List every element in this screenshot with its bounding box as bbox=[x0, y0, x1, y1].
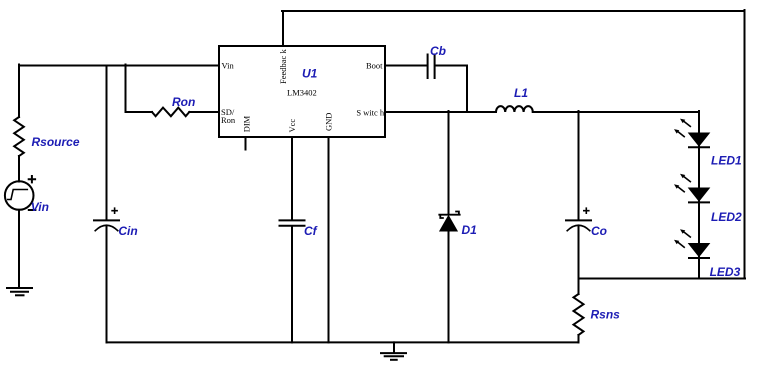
svg-text:Cf: Cf bbox=[304, 224, 318, 238]
wire Cin branch lower bbox=[106, 226, 108, 343]
resistor Rsns bbox=[574, 294, 584, 335]
voltage source Vin bbox=[5, 181, 34, 210]
capacitor Cf bbox=[280, 220, 305, 225]
wire Rsns upper lead bbox=[578, 279, 580, 295]
svg-text:DIM: DIM bbox=[241, 115, 251, 132]
svg-text:S witc h: S witc h bbox=[356, 108, 385, 118]
svg-text:LED3: LED3 bbox=[710, 265, 741, 279]
svg-text:Rsource: Rsource bbox=[32, 135, 80, 149]
wire feedback pin stub bbox=[282, 11, 284, 46]
wire Ron branch vertical bbox=[125, 65, 127, 113]
wire feedback top run bbox=[282, 10, 745, 12]
wire Ron to SD pin bbox=[189, 111, 219, 113]
wire source to Rsource bbox=[18, 65, 20, 118]
wire Co branch lower bbox=[578, 226, 580, 279]
ground (bottom) stem bbox=[393, 342, 395, 352]
svg-text:Boot: Boot bbox=[366, 60, 383, 70]
svg-text:Co: Co bbox=[591, 224, 607, 238]
pin DIM stub bbox=[245, 137, 247, 150]
op-amp U1 IC box bbox=[219, 46, 385, 137]
svg-text:Vcc: Vcc bbox=[287, 119, 297, 133]
wire bottom rail bbox=[107, 341, 579, 343]
wire Cf to bottom rail bbox=[291, 227, 293, 343]
svg-text:D1: D1 bbox=[462, 223, 478, 237]
wire L1 to LED node bbox=[533, 111, 699, 113]
svg-text:LED2: LED2 bbox=[711, 210, 742, 224]
svg-text:GND: GND bbox=[324, 113, 334, 131]
svg-text:Vin: Vin bbox=[222, 61, 235, 71]
wire Ron branch to resistor bbox=[126, 111, 153, 113]
wire GND pin down bbox=[328, 137, 330, 342]
wire Vcc pin down bbox=[291, 137, 293, 219]
wire Rsns lower lead bbox=[578, 335, 580, 342]
svg-text:Ron: Ron bbox=[172, 95, 195, 109]
svg-text:L1: L1 bbox=[514, 86, 528, 100]
svg-text:Ron: Ron bbox=[221, 115, 236, 125]
capacitor Cin bbox=[94, 219, 119, 221]
wire Co branch upper bbox=[578, 111, 580, 219]
svg-text:U1: U1 bbox=[302, 67, 318, 81]
resistor Rsource bbox=[14, 117, 24, 156]
wire Cin branch upper bbox=[106, 66, 108, 220]
ground (bottom) bbox=[381, 352, 406, 354]
svg-text:Feedbac k: Feedbac k bbox=[278, 49, 288, 84]
wire Cb to switch node bbox=[436, 66, 468, 113]
wire source to ground bbox=[18, 210, 20, 288]
wire input rail Vin net bbox=[19, 65, 219, 67]
diode D1 triangle bbox=[440, 216, 457, 231]
LED D-LED2 bbox=[674, 174, 709, 203]
ground (left) bbox=[7, 287, 32, 289]
wire D1 branch upper bbox=[448, 111, 450, 214]
capacitor Co bbox=[566, 219, 591, 221]
wire feedback bottom run bbox=[579, 278, 746, 280]
wire Rsource to source bbox=[18, 156, 20, 182]
svg-text:LM3402: LM3402 bbox=[287, 88, 317, 98]
resistor Ron bbox=[152, 108, 189, 117]
diode D1 schottky bar bbox=[439, 212, 459, 219]
wire Boot lead bbox=[385, 65, 427, 67]
wire Switch lead bbox=[385, 111, 496, 113]
LED D-LED1 bbox=[674, 119, 709, 148]
svg-text:Cb: Cb bbox=[430, 44, 446, 58]
capacitor Cb bbox=[428, 55, 435, 79]
wire feedback right vertical bbox=[744, 10, 746, 279]
LED D-LED3 bbox=[674, 229, 709, 258]
wire LED column bbox=[698, 111, 700, 279]
inductor L1 bbox=[496, 106, 533, 112]
svg-text:Rsns: Rsns bbox=[591, 308, 621, 322]
svg-text:LED1: LED1 bbox=[711, 154, 742, 168]
svg-text:Vin: Vin bbox=[31, 200, 49, 214]
svg-text:Cin: Cin bbox=[118, 224, 137, 238]
wire D1 branch lower bbox=[448, 231, 450, 342]
